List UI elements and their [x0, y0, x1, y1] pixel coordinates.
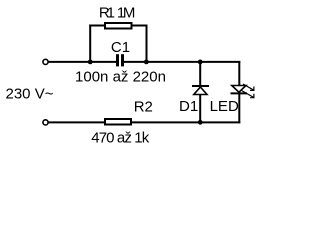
label: 230 V~ source voltage	[6, 85, 54, 102]
diode D1 triangle (anode, pointing up)	[194, 87, 207, 95]
junction dot: R1 loop right on top wire	[144, 60, 149, 65]
terminal node: top input terminal (open circle)	[43, 59, 48, 64]
svg-text:C1: C1	[111, 39, 130, 56]
label: R2	[134, 99, 153, 116]
svg-text:D1: D1	[179, 98, 198, 115]
wire: top wire from C1 right plate to LED branch corner	[124, 61, 240, 63]
diode D1 cathode bar	[192, 85, 209, 87]
LED cathode bar	[231, 92, 248, 94]
resistor R1 body	[105, 23, 132, 29]
wire: bottom wire from R2 to LED branch corner	[132, 121, 240, 123]
label: R1 1M	[99, 5, 135, 22]
wire: D1 branch vertical	[199, 62, 201, 123]
svg-text:R2: R2	[134, 99, 153, 116]
svg-text:R11M: R11M	[99, 5, 135, 22]
LED emission arrow 1	[243, 84, 254, 90]
label: C1	[111, 39, 130, 56]
svg-text:470 až 1k: 470 až 1k	[91, 129, 150, 146]
label: D1	[179, 98, 198, 115]
wire: R1 right horizontal stub	[133, 25, 148, 27]
junction dot: D1 branch bottom	[198, 120, 203, 125]
junction dot: R1 loop left on top wire	[88, 60, 93, 65]
capacitor C1 left plate	[116, 54, 119, 66]
resistor R2 body	[105, 119, 131, 125]
capacitor C1 right plate	[121, 54, 124, 66]
wire: R1 left horizontal stub	[89, 25, 104, 27]
svg-text:230 V~: 230 V~	[6, 85, 54, 102]
wire: LED branch vertical	[238, 61, 240, 123]
LED emission arrow 2	[242, 91, 254, 98]
junction dot: D1 branch top	[198, 60, 203, 65]
terminal node: bottom input terminal (open circle)	[43, 120, 48, 125]
wire: top wire from input terminal to C1 left plate	[48, 61, 116, 63]
label: R2 value 470 az 1k	[91, 129, 150, 146]
svg-text:LED: LED	[210, 98, 239, 115]
label: LED	[210, 98, 239, 115]
wire: R1 loop left vertical riser	[89, 25, 91, 63]
wire: R1 loop right vertical riser	[146, 25, 148, 63]
svg-text:100n až 220n: 100n až 220n	[75, 69, 166, 86]
LED triangle (pointing down)	[232, 86, 246, 93]
wire: bottom wire from input terminal to R2	[48, 121, 104, 123]
label: C1 value 100n az 220n	[75, 69, 166, 86]
